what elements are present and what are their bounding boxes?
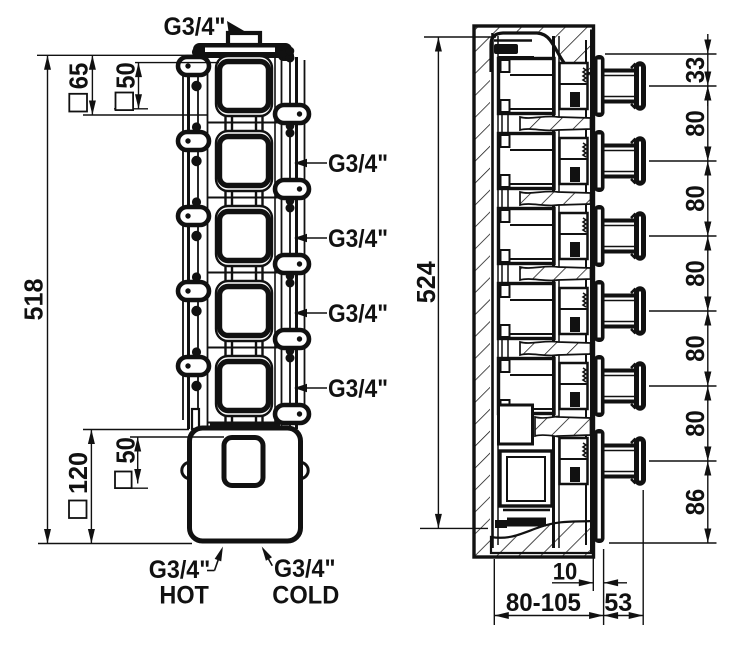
svg-text:33: 33	[682, 57, 710, 84]
svg-text:524: 524	[413, 260, 441, 303]
svg-text:65: 65	[65, 63, 93, 90]
svg-text:G3/4": G3/4"	[149, 556, 211, 584]
svg-text:50: 50	[112, 62, 140, 89]
svg-text:G3/4": G3/4"	[328, 375, 388, 403]
svg-text:COLD: COLD	[272, 581, 339, 609]
svg-text:10: 10	[553, 559, 578, 586]
svg-text:G3/4": G3/4"	[164, 13, 226, 41]
svg-text:80-105: 80-105	[506, 589, 581, 617]
svg-text:G3/4": G3/4"	[274, 555, 336, 583]
svg-text:G3/4": G3/4"	[328, 300, 388, 328]
svg-text:G3/4": G3/4"	[328, 225, 388, 253]
svg-text:G3/4": G3/4"	[328, 150, 388, 178]
svg-text:50: 50	[112, 437, 140, 464]
svg-text:120: 120	[65, 452, 93, 494]
svg-text:80: 80	[682, 335, 710, 362]
svg-text:80: 80	[682, 410, 710, 437]
svg-text:518: 518	[21, 279, 49, 321]
svg-text:80: 80	[682, 260, 710, 287]
svg-text:HOT: HOT	[159, 581, 209, 609]
svg-text:80: 80	[682, 110, 710, 137]
svg-text:53: 53	[604, 589, 632, 617]
svg-text:80: 80	[682, 185, 710, 212]
svg-text:86: 86	[682, 489, 710, 516]
